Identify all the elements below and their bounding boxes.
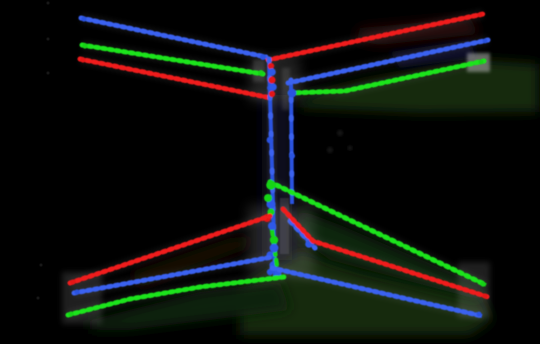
green steep segment near v1 bottom [272,230,277,266]
gray halo blocks at junctions [250,58,300,102]
artifact wash: dark green under bottom-left green line [90,282,290,330]
line TR-green [290,60,484,93]
artifact wash: maroon around bottom-left red [130,236,252,288]
line BR-red [283,209,488,298]
line BL-green [68,277,284,317]
gray halo: center verticals [269,59,275,276]
steep blue segment v2 bottom [290,221,315,248]
line BL-blue [74,257,272,295]
line TR-red [268,13,483,60]
line BR-blue [272,268,482,316]
line BL-red [70,216,270,285]
line BR-green [264,180,486,286]
vertical v2 blue with bend [288,80,297,204]
faint smudge marks [37,2,50,300]
artifact wash: maroon under top-right red [355,18,480,45]
line TR-blue [288,39,488,83]
line TL-green [82,43,264,76]
artifact wash: dark green band right-middle [300,60,539,113]
junction blue mass [266,199,312,252]
gray halo: top-left lines [81,18,266,57]
blue chunky blobs on v1 [268,68,277,91]
line TL-blue [81,16,266,60]
red beads on v1 top [268,63,276,97]
green blobs on v1 bottom [267,208,278,244]
line TL-red [80,57,271,98]
artifact wash: dark green bottom-right quadrant [240,250,492,335]
vertical v1 blue [266,59,281,276]
BL-red end arrowhead [263,214,271,222]
gray halo: bottom-right lines [270,182,486,285]
artifact wash: navy around center verticals [262,95,292,260]
artifact wash: navy under top-right blue [390,40,476,68]
gray halo: top-right lines [268,14,483,60]
gray band between v1 and steep red [280,198,289,254]
gray halo: bottom-left lines [70,216,270,283]
